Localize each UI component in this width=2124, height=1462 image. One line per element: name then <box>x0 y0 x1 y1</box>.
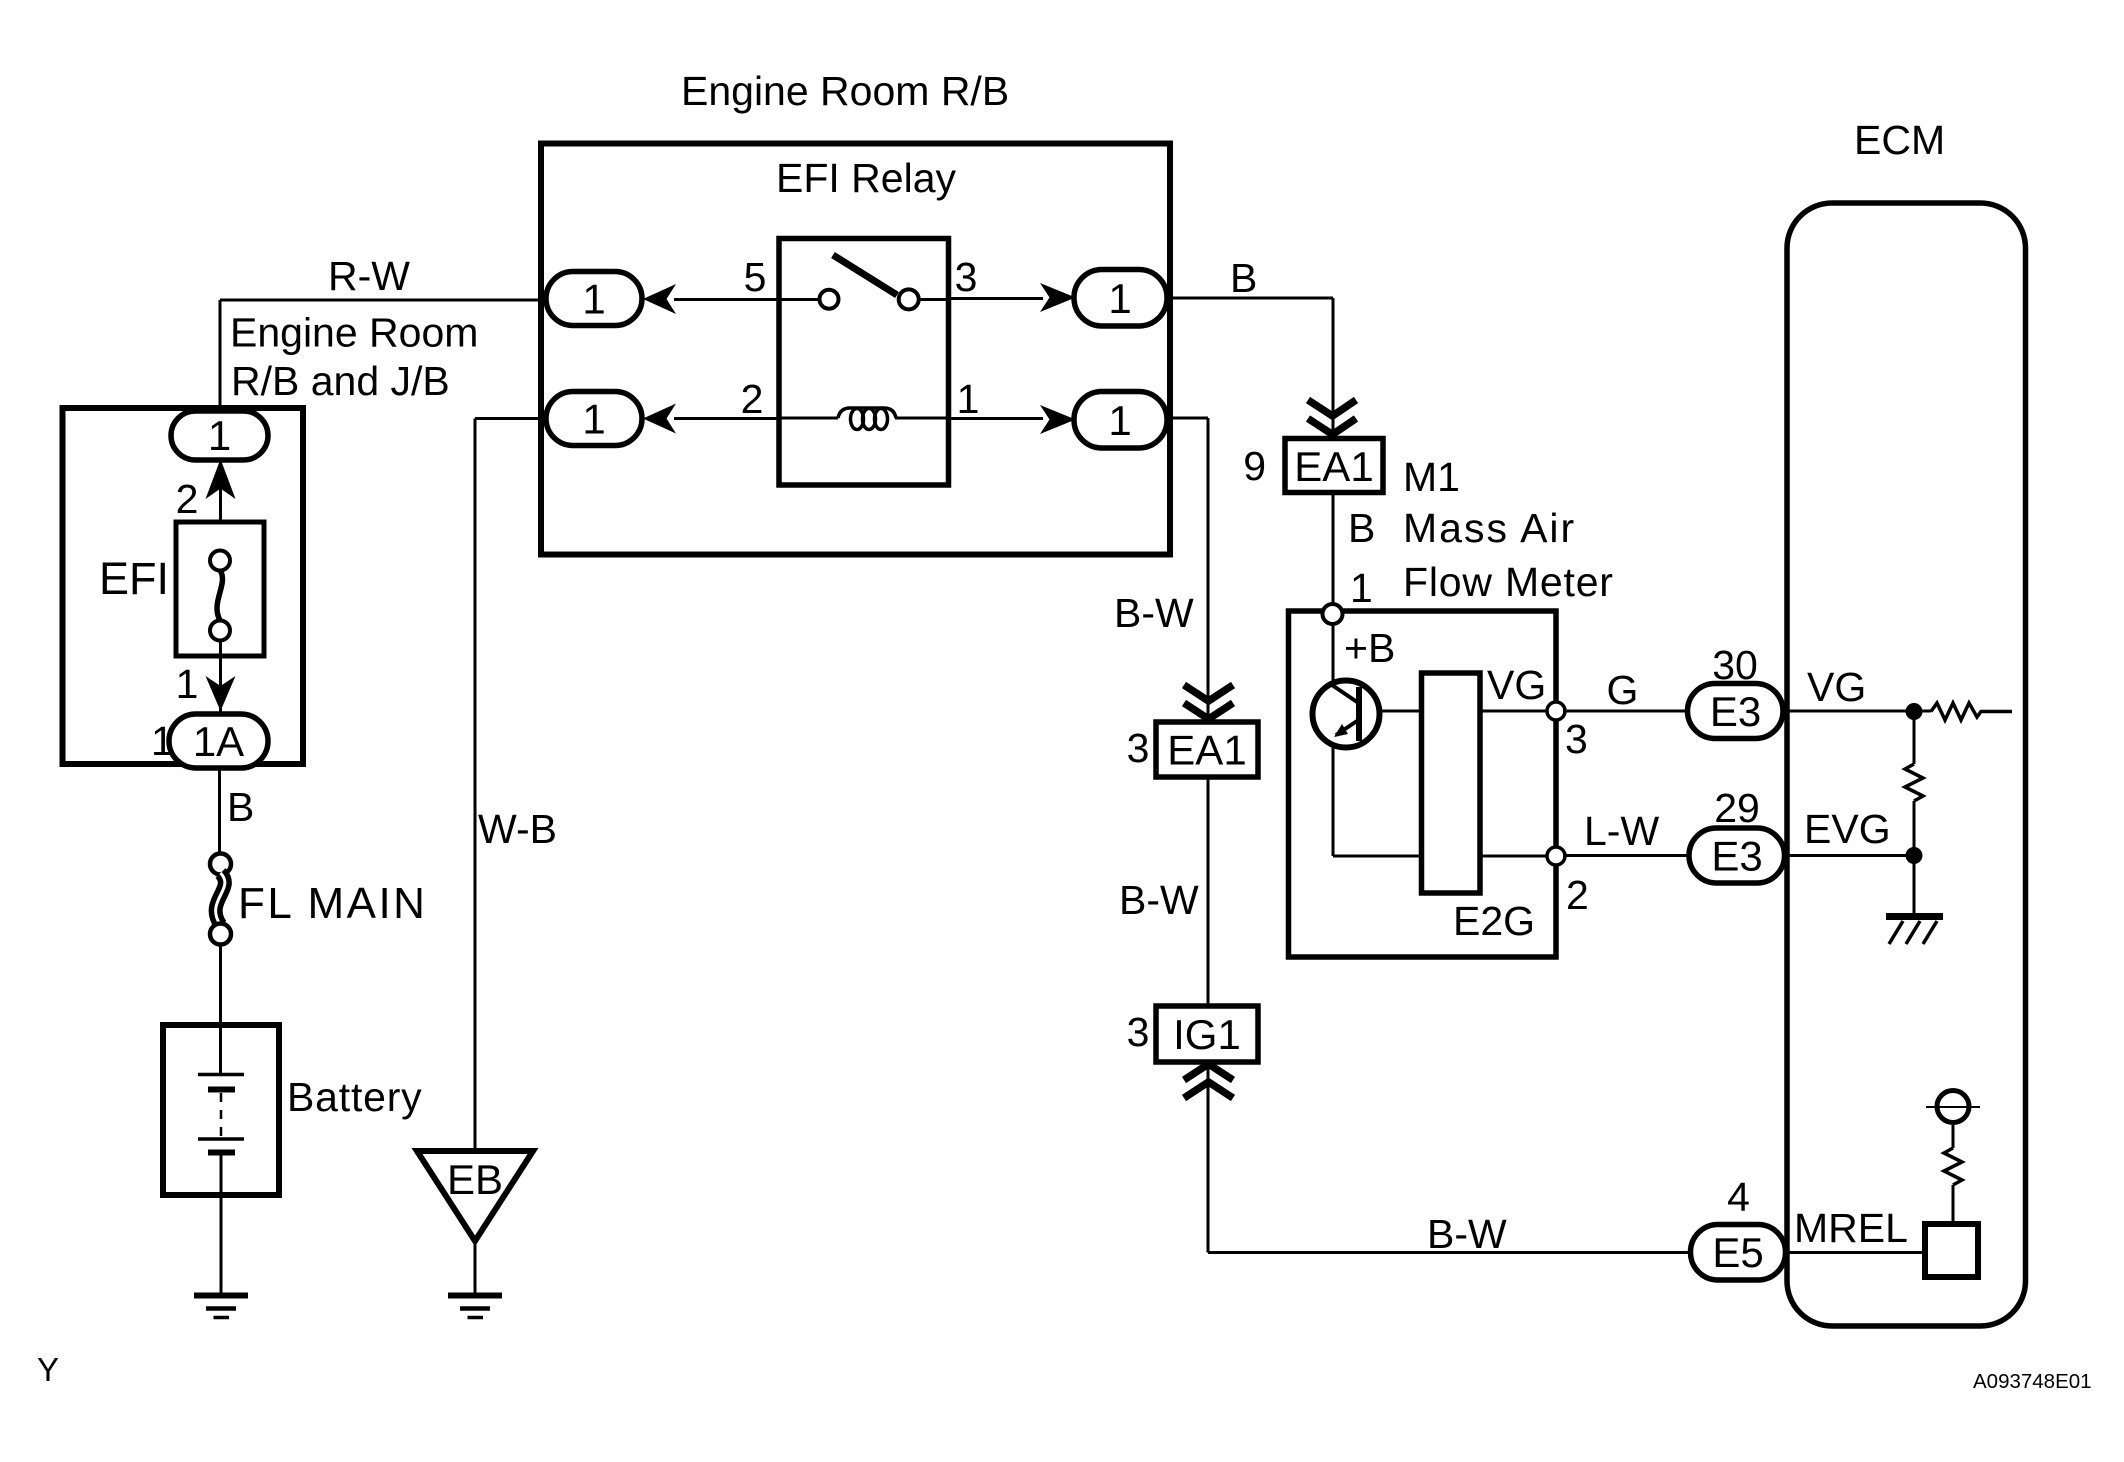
svg-text:EVG: EVG <box>1804 806 1891 852</box>
connector EA1 M1 <box>1285 439 1383 493</box>
svg-text:1: 1 <box>582 276 605 323</box>
ECM box <box>1787 203 2026 1326</box>
svg-text:B-W: B-W <box>1119 877 1199 923</box>
svg-text:B-W: B-W <box>1114 590 1194 636</box>
relay switch contact circle right <box>899 289 919 309</box>
arrow left row1 <box>643 284 676 314</box>
svg-text:Mass Air: Mass Air <box>1403 505 1576 551</box>
chevrons below IG1 <box>1184 1064 1233 1080</box>
svg-text:MREL: MREL <box>1794 1205 1908 1251</box>
wire B jog <box>1167 417 1208 420</box>
resistor vertical <box>1905 764 1923 801</box>
wire circle to resistor <box>1952 1122 1955 1148</box>
arrow right row2 <box>1040 405 1076 434</box>
node 2 <box>1547 847 1565 865</box>
svg-text:5: 5 <box>744 254 767 300</box>
ground EB <box>448 1293 502 1299</box>
wire relay pin5 stub <box>779 298 820 301</box>
svg-text:1: 1 <box>957 376 980 422</box>
connector oval 1A <box>169 714 268 768</box>
svg-text:E3: E3 <box>1710 688 1761 735</box>
svg-text:Engine Room R/B: Engine Room R/B <box>681 68 1009 114</box>
wire R-W horizontal <box>220 299 546 302</box>
svg-text:L-W: L-W <box>1584 808 1659 854</box>
svg-text:1A: 1A <box>193 718 244 765</box>
junction dot VG <box>1906 703 1923 720</box>
svg-text:2: 2 <box>741 376 764 422</box>
svg-text:E5: E5 <box>1712 1229 1763 1276</box>
connector oval E3 30 <box>1688 684 1784 739</box>
fuse EFI element top circle <box>210 551 230 571</box>
wire EB to ground <box>474 1241 477 1293</box>
wire MREL <box>1789 1251 1925 1254</box>
wire VG to EVG resistor <box>1913 711 1916 764</box>
arrow right row1 <box>1040 283 1076 312</box>
battery cell dashed link <box>220 1093 223 1138</box>
fuse EFI element wire <box>217 570 222 621</box>
connector oval E5 <box>1691 1225 1786 1281</box>
svg-text:3: 3 <box>1127 1009 1150 1055</box>
wire FL MAIN to battery <box>219 944 222 1075</box>
wire B-W bottom <box>1208 1251 1692 1254</box>
wire EVG inside <box>1789 854 1914 857</box>
svg-text:IG1: IG1 <box>1173 1011 1241 1058</box>
svg-text:3: 3 <box>955 254 978 300</box>
connector IG1 <box>1156 1006 1258 1062</box>
battery plate negative 2 <box>208 1150 235 1156</box>
wire resistor to node3 <box>1480 710 1550 713</box>
chassis ground <box>1886 913 1943 920</box>
svg-text:B: B <box>227 784 254 830</box>
svg-text:1: 1 <box>582 396 605 443</box>
chevrons above EA1 <box>1308 400 1356 416</box>
fuse EFI element bottom circle <box>210 621 230 641</box>
connector oval 1 row2 left <box>546 392 642 446</box>
ground battery <box>194 1293 248 1299</box>
connector oval 1 row1 right <box>1074 270 1167 327</box>
battery box <box>163 1025 279 1195</box>
svg-text:3: 3 <box>1565 716 1588 762</box>
transistor Q1 base bar <box>1356 687 1362 741</box>
svg-text:Y: Y <box>37 1351 59 1388</box>
relay switch blade <box>833 255 897 295</box>
svg-text:B: B <box>1230 255 1257 301</box>
wire relay pin1 stub <box>895 417 949 420</box>
connector EA1 2 <box>1156 722 1258 777</box>
svg-text:EB: EB <box>447 1156 503 1203</box>
resistor horizontal <box>1931 703 2012 720</box>
MREL driver square <box>1925 1224 1978 1277</box>
svg-text:1: 1 <box>1108 275 1131 322</box>
wire R-W vertical <box>219 300 222 414</box>
svg-text:VG: VG <box>1487 662 1546 708</box>
chevrons above EA1 2 <box>1184 685 1233 701</box>
wire 1A to FL MAIN <box>218 768 221 854</box>
svg-text:+B: +B <box>1344 625 1395 671</box>
battery plate positive 2 <box>198 1137 244 1141</box>
wire row2 left <box>674 417 779 420</box>
junction block box <box>63 408 304 764</box>
svg-text:B-W: B-W <box>1427 1211 1507 1257</box>
svg-text:EFI Relay: EFI Relay <box>776 155 956 201</box>
wire row1 left <box>674 298 779 301</box>
wire W-B <box>475 417 547 420</box>
svg-text:ECM: ECM <box>1854 117 1945 163</box>
svg-text:4: 4 <box>1727 1174 1750 1220</box>
svg-text:Flow Meter: Flow Meter <box>1403 559 1614 605</box>
relay K1 box <box>779 239 949 486</box>
svg-text:EA1: EA1 <box>1167 727 1246 774</box>
fuse EFI box <box>176 522 264 656</box>
svg-text:3: 3 <box>1127 725 1150 771</box>
relay coil L1 <box>838 408 896 418</box>
wire G <box>1563 710 1691 713</box>
svg-text:VG: VG <box>1807 664 1866 710</box>
wire lower rail <box>1333 855 1550 858</box>
connector oval 1 row2 right <box>1074 392 1167 449</box>
wire row2 right <box>949 417 1043 420</box>
fusible link FL MAIN ribbon <box>216 873 225 925</box>
resistor MREL <box>1944 1148 1962 1185</box>
wire relay pin2 stub <box>779 417 838 420</box>
transistor Q1 emitter <box>1336 721 1357 735</box>
arrow down <box>206 676 236 711</box>
wire B-W vertical 1 <box>1207 418 1210 722</box>
mass air flow meter box <box>1289 611 1557 957</box>
wire fuse bottom <box>219 640 222 714</box>
svg-text:E3: E3 <box>1711 833 1762 880</box>
svg-text:1: 1 <box>208 412 231 459</box>
wire resistor to square <box>1952 1185 1955 1226</box>
ground triangle EB <box>417 1151 533 1241</box>
resistor element <box>1422 673 1481 893</box>
wire EA1 to MAF <box>1332 492 1335 611</box>
wire L-W <box>1563 854 1691 857</box>
wire transistor bottom <box>1332 745 1335 856</box>
svg-text:EA1: EA1 <box>1294 443 1373 490</box>
wire B to EA1 <box>1167 297 1333 300</box>
svg-text:1: 1 <box>1350 565 1373 611</box>
wire IG1 down <box>1207 1062 1210 1253</box>
fusible link FL MAIN top circle <box>210 854 231 875</box>
wire row1 right <box>949 297 1043 300</box>
svg-text:Battery: Battery <box>287 1074 423 1120</box>
battery plate negative 1 <box>208 1087 235 1093</box>
node pin1 junction <box>1323 604 1343 624</box>
wire battery to ground <box>220 1155 223 1293</box>
svg-text:2: 2 <box>176 476 199 522</box>
wire to chassis ground <box>1913 855 1916 913</box>
svg-text:9: 9 <box>1243 443 1266 489</box>
node 3 <box>1547 702 1565 720</box>
arrow up <box>206 459 236 499</box>
transistor Q1 body circle <box>1313 681 1380 748</box>
wire transistor to resistor <box>1379 710 1425 713</box>
arrow left row2 <box>643 404 676 434</box>
connector oval 1 top <box>171 411 268 460</box>
svg-text:A093748E01: A093748E01 <box>1973 1370 2092 1393</box>
svg-text:R/B and J/B: R/B and J/B <box>231 358 450 404</box>
svg-text:2: 2 <box>1566 872 1589 918</box>
junction dot EVG <box>1906 847 1923 864</box>
svg-text:1: 1 <box>1108 397 1131 444</box>
connector oval 1 row1 left <box>546 272 642 326</box>
fusible link FL MAIN bottom circle <box>210 924 231 945</box>
svg-text:Engine Room: Engine Room <box>230 310 478 356</box>
wire VG inside <box>1789 710 1931 713</box>
svg-text:B: B <box>1348 505 1375 551</box>
box Engine Room R/B <box>541 144 1170 555</box>
MREL circle <box>1937 1091 1969 1123</box>
svg-text:E2G: E2G <box>1453 898 1535 944</box>
svg-text:M1: M1 <box>1403 454 1460 500</box>
transistor Q1 collector <box>1332 685 1357 702</box>
svg-text:29: 29 <box>1714 785 1760 831</box>
wire junction to transistor <box>1332 623 1335 684</box>
relay switch contact circle left <box>820 290 839 309</box>
svg-text:1: 1 <box>176 661 199 707</box>
wire EA1 to IG1 <box>1207 777 1210 1006</box>
wire to EVG junction <box>1913 801 1916 858</box>
svg-text:W-B: W-B <box>478 806 557 852</box>
svg-text:EFI: EFI <box>99 553 169 604</box>
svg-text:FL MAIN: FL MAIN <box>238 879 427 928</box>
connector oval E3 29 <box>1689 828 1785 883</box>
svg-text:R-W: R-W <box>328 253 410 299</box>
svg-text:G: G <box>1607 667 1639 713</box>
wire fuse top <box>219 460 222 552</box>
wire relay pin3 stub <box>918 298 949 301</box>
battery plate positive 1 <box>198 1073 244 1077</box>
